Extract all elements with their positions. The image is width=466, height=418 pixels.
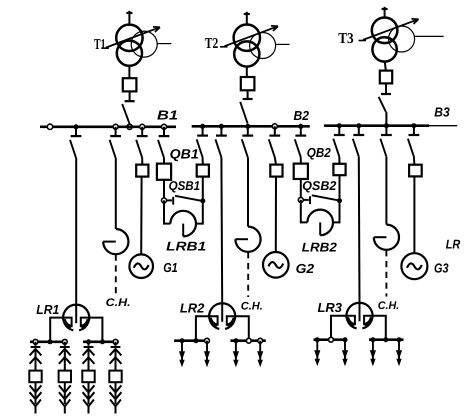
bar LR2-left [174,339,208,342]
svg-text:T3: T3 [338,31,354,47]
disconnector (LR3 feeder) [353,126,364,157]
busbar B1 [40,126,176,129]
node left end B1 [47,124,52,129]
wire disc-breaker tie2 [338,157,340,164]
svg-text:LR: LR [446,237,461,252]
node QB1 drop on B1 [162,124,167,129]
disconnector (tie2 right) [333,126,344,157]
label QB2 [307,145,332,160]
disconnector (QB1) [158,127,169,158]
wire disc-breaker G2 [275,157,276,164]
label C.H. 2 [241,300,263,312]
feeder 1b [59,342,71,414]
node A (QB1 side) [162,198,167,203]
node G3 drop on B3 [411,123,416,128]
node tie2 drop on B3 [337,123,342,128]
breaker QB1 [157,164,171,180]
svg-text:B3: B3 [434,105,450,120]
label B3 [434,105,450,120]
label G2 [296,261,315,276]
node B (B2 side) [200,198,205,203]
feeder 2b [204,341,210,368]
busbar B2 [192,125,310,128]
aux reactor 1 [103,229,128,254]
node tap 3a [315,337,320,342]
feeder 3c [370,340,376,367]
disconnector QS (T3 to B3) [379,94,391,112]
wire disc-QB1 [163,158,165,164]
label LR3 [318,300,343,315]
label C.H. 3 [378,300,400,312]
label C.H. 1 [106,297,131,309]
svg-text:G1: G1 [163,260,178,275]
svg-text:B1: B1 [157,107,178,122]
label B2 [294,108,310,123]
svg-text:QSB2: QSB2 [302,178,336,193]
svg-text:QB2: QB2 [307,145,332,160]
wire QB1-node [163,180,165,201]
feeder 1d [109,342,121,414]
disconnector (G1 feeder) [136,127,147,158]
breaker (T3 chain) [380,71,392,84]
wire breaker-disconnector T2 [247,90,249,99]
wire breaker-disconnector T1 [129,91,131,101]
disconnector (G3 feeder) [408,126,419,157]
node C (QB2 side) [298,197,303,202]
generator G1 [129,254,153,278]
wire disc-breaker tie1 [202,157,204,164]
aux reactor 2 [235,227,260,252]
label LR2 [180,300,205,315]
label QSB1 [169,178,201,193]
node tap 1b [62,339,67,344]
node tap 3b [343,337,348,342]
node tap 2c [233,338,238,343]
svg-text:С.Н.: С.Н. [106,297,131,309]
svg-text:LRB1: LRB1 [166,238,206,253]
wire QB2-node [300,179,302,200]
breaker QB2 [294,164,308,179]
node tap 3c [370,337,375,342]
node feed LR1-left [48,339,53,344]
wire to LR2 [220,157,223,303]
feeder 1a [29,342,41,414]
svg-text:T2: T2 [205,36,219,52]
disconnector (aux feeder 2) [242,126,253,157]
svg-text:С.Н.: С.Н. [378,300,400,312]
node QB2 drop on B2 [298,124,303,129]
feeder 1c [82,342,94,414]
wire blade-B3 [385,112,387,126]
node tie1 drop on B2 [200,124,205,129]
bar LR3-left [314,338,347,341]
generator G3 [401,253,427,279]
bar LR3-right [369,338,404,341]
wire to aux reactor 2 [247,157,249,226]
wire to LR1 [75,158,77,305]
label QB1 [170,147,199,162]
disconnector QS (T2 to B2) [240,99,252,124]
label LR1 [36,302,59,317]
node feed LR2-right [246,338,251,343]
node feed LR3-right [383,337,388,342]
disconnector (aux feeder 3) [380,126,391,157]
label B1 [157,107,178,122]
node T2 on B2 [245,124,250,129]
feeder 2c [233,341,239,368]
wire to LR3 [358,157,361,303]
wire to aux reactor 1 [115,158,117,229]
feeder 3d [396,340,402,367]
node T1 on B1 [127,124,132,129]
label LRB2 [302,239,337,254]
wire T1-breaker [128,66,130,79]
bar LR1-right [83,340,119,343]
reactor LRB1 [164,200,203,236]
node tap 2a [180,338,185,343]
wire disc-breaker G3 [413,157,416,165]
bar LR1-left [30,340,68,343]
label LRB1 [166,238,206,253]
breaker (G3) [409,165,422,177]
node tap 1c [86,339,91,344]
disconnector QSB2 [303,195,339,204]
node G1 drop on B1 [140,124,145,129]
svg-text:LRB2: LRB2 [302,239,337,254]
reactor LR2 [196,303,249,341]
node G2 drop on B2 [272,124,277,129]
svg-text:G2: G2 [296,261,315,276]
aux reactor 3 [374,225,399,250]
disconnector (LR1 feeder) [70,127,81,158]
breaker (G2) [270,165,282,177]
dashed lead to aux 1 [115,255,117,294]
svg-text:QSB1: QSB1 [169,178,201,193]
reactor LR3 [331,302,386,340]
label G3 [434,260,449,275]
bar LR2-right [230,339,265,342]
label LR (edge, cut) [446,237,461,252]
wire to aux reactor 3 [385,157,387,225]
svg-text:B2: B2 [294,108,310,123]
feeder 2d [257,341,263,368]
svg-text:T1: T1 [94,37,106,53]
transformer T1 [94,11,171,66]
disconnector (tie1 right) [197,126,208,157]
wire disc-breaker G1 [141,158,143,165]
wire breaker-disconnector T3 [385,83,387,94]
node tap 2d [258,338,263,343]
wire breaker-G3 [413,176,415,253]
dashed lead to aux 2 [247,252,249,297]
wire T2-breaker [246,67,248,77]
svg-text:G3: G3 [434,260,449,275]
transformer T2 [205,12,290,67]
node tap 3d [397,337,402,342]
feeder 2a [179,341,185,368]
reactor LR1 [50,304,102,342]
wire T3-breaker [385,61,386,70]
wire disc-QB2 [300,157,302,163]
node LR3 drop on B3 [356,123,361,128]
node LR2 drop on B2 [219,124,224,129]
breaker (T2 chain) [241,77,255,90]
node feed LR2-left [193,338,198,343]
svg-text:LR3: LR3 [318,300,343,315]
feeder 3b [342,340,348,367]
busbar B3 [324,124,457,127]
node T3 on B3 [384,123,389,128]
disconnector (LR2 feeder) [215,126,226,157]
generator G2 [263,252,289,278]
disconnector (QB2) [295,126,306,157]
svg-text:С.Н.: С.Н. [241,300,263,312]
svg-text:LR1: LR1 [36,302,59,317]
disconnector (G2 feeder) [269,126,280,157]
wire breaker-G2 [275,177,277,253]
disconnector QSB1 [166,196,202,205]
breaker (tie1 right) [197,165,209,177]
svg-text:LR2: LR2 [180,300,205,315]
transformer T3 [338,7,443,62]
node feed LR1-right [100,339,105,344]
node feed LR3-left [329,337,334,342]
node tap 2b [205,338,210,343]
label G1 [163,260,178,275]
node D (B3 side) [337,198,342,203]
disconnector QS (T1 to B1) [122,101,134,124]
node tap 1a [33,339,38,344]
wire breaker-node tie1 [202,177,204,201]
node aux drop on B1 [113,124,118,129]
breaker (G1) [136,165,148,177]
reactor LRB2 [301,200,340,235]
svg-text:QB1: QB1 [170,147,199,162]
breaker (tie2 right) [333,164,345,175]
node tap 1d [113,339,118,344]
wire breaker-node tie2 [339,175,341,201]
breaker (T1 chain) [123,78,137,91]
dashed lead to aux 3 [385,250,387,296]
wire breaker-G1 [140,177,142,255]
disconnector (aux feeder 1) [110,127,121,158]
node LR1 drop on B1 [74,124,79,129]
label QSB2 [302,178,336,193]
feeder 3a [314,340,320,367]
